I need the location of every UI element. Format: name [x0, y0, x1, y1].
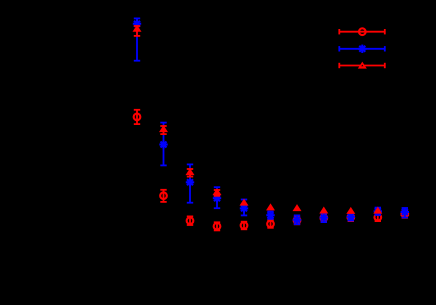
blue star series [136, 18, 138, 60]
red triangle series [136, 26, 138, 36]
red circle series [136, 110, 138, 124]
legend [339, 31, 385, 33]
red triangle point 11 (behind) [400, 209, 409, 216]
